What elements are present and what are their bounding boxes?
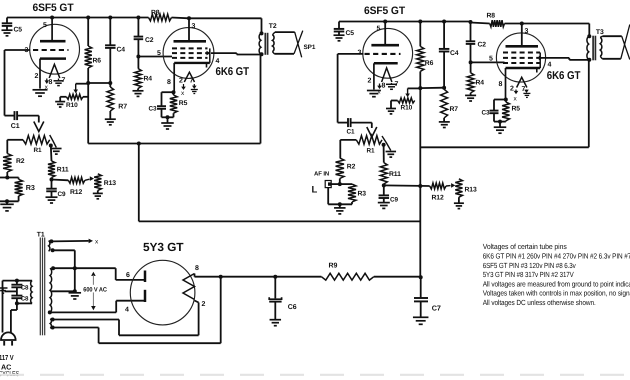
V4 heater	[517, 77, 527, 87]
svg-text:2: 2	[510, 86, 514, 93]
junction 6K6 plate	[187, 16, 191, 20]
capacitor C2 right	[466, 22, 487, 63]
V3 heater pin8 to x	[377, 84, 382, 96]
R1 wiper arm left	[34, 116, 44, 132]
svg-text:3: 3	[358, 50, 362, 57]
svg-text:3: 3	[525, 28, 529, 35]
wire jack sleeve left	[0, 199, 19, 203]
svg-text:All voltages are measured from: All voltages are measured from ground to…	[483, 279, 630, 288]
svg-text:T2: T2	[269, 23, 277, 30]
V3 pin 3 label	[358, 50, 362, 57]
junction R5/C3 bottom	[162, 115, 174, 122]
capacitor C1 left	[11, 111, 39, 130]
transformer T1 label	[37, 231, 45, 238]
wire R1 to R2 right	[340, 140, 356, 158]
V2 cathode ground	[161, 123, 174, 129]
junction C4/R7	[108, 81, 112, 85]
T2 secondary winding	[272, 32, 275, 54]
V3 pin 5 label	[377, 26, 381, 33]
R1 ground arm right	[382, 136, 396, 157]
svg-text:Voltages taken with controls i: Voltages taken with controls in max posi…	[483, 289, 630, 298]
junction C2b bottom	[469, 60, 473, 64]
V3 cathode	[374, 63, 398, 89]
svg-text:R1: R1	[34, 147, 43, 154]
capacitor C5	[2, 18, 23, 36]
resistor R8	[149, 10, 172, 21]
V5 pin 8 label	[195, 265, 199, 272]
resistor R11 left	[48, 146, 69, 180]
junction T2 primary top	[260, 31, 264, 35]
svg-text:6: 6	[126, 272, 130, 279]
wire C8 link	[16, 281, 18, 296]
R13 wiper arrow right	[446, 183, 455, 188]
svg-text:Voltages of certain tube pins: Voltages of certain tube pins	[483, 242, 567, 251]
wire HV top to 5Y3 pin6	[53, 268, 144, 280]
V2 pin 7 label	[190, 78, 194, 85]
junction R1/R11 left	[49, 144, 53, 148]
svg-text:C6: C6	[288, 304, 297, 311]
svg-text:R7: R7	[118, 104, 127, 111]
triode V1 6SF5 GT envelope	[30, 24, 80, 74]
svg-text:117 V: 117 V	[0, 353, 14, 362]
junction V2 cathode	[172, 90, 176, 94]
svg-text:R9: R9	[329, 263, 338, 270]
svg-text:3: 3	[25, 47, 29, 54]
V1 pin 3 label	[25, 47, 29, 54]
svg-text:3: 3	[192, 23, 196, 30]
junction HV bottom	[48, 310, 52, 314]
speaker SP2	[621, 25, 630, 60]
wire B+ riser right	[419, 88, 421, 277]
svg-text:R5: R5	[512, 106, 521, 113]
potentiometer R1 left	[23, 136, 50, 155]
potentiometer R13 right	[454, 179, 477, 209]
T1 primary winding	[31, 281, 32, 304]
V4 pin4 arrow	[539, 56, 543, 61]
resistor R3 right	[340, 184, 367, 204]
V1 pin 5 label	[43, 22, 47, 29]
junction R11/C9 right	[382, 183, 386, 187]
T1 rectifier filament winding	[50, 319, 51, 329]
svg-text:4: 4	[125, 307, 129, 314]
resistor R2 right	[336, 158, 356, 184]
svg-text:5: 5	[489, 56, 493, 63]
potentiometer R1 right	[356, 136, 382, 155]
resistor R5 right	[502, 100, 520, 122]
plug 117V	[1, 332, 16, 345]
junction C2 bottom	[136, 55, 140, 59]
junction T1 x-winding top	[49, 239, 53, 243]
V4 pin 8 label	[499, 81, 503, 88]
V2 plate	[174, 18, 207, 41]
svg-text:6SF5 GT: 6SF5 GT	[364, 5, 405, 17]
V5 pin 4 label	[125, 307, 129, 314]
junction R1/R11 right	[382, 143, 386, 147]
wire 5V to 5Y3 pin8	[53, 277, 221, 344]
capacitor C8 upper	[11, 285, 29, 292]
junction 5V bottom	[51, 326, 55, 330]
svg-text:6SF5 GT: 6SF5 GT	[33, 2, 74, 14]
V1 heater pin7 ground	[54, 79, 64, 86]
V2 grids (dashed)	[172, 48, 208, 58]
wire V4 screen to T3	[541, 58, 589, 60]
svg-text:C7: C7	[432, 303, 441, 312]
svg-text:8: 8	[49, 79, 53, 86]
svg-text:R11: R11	[57, 167, 69, 174]
resistor R9	[321, 263, 373, 281]
svg-text:R10: R10	[66, 102, 78, 109]
V2 pin 3 label	[192, 23, 196, 30]
T3 primary winding	[587, 36, 589, 59]
V2 pin7 ground	[191, 84, 198, 94]
junction C8 bottom	[15, 301, 19, 305]
label AC	[1, 362, 11, 371]
V2 pin4 arrow	[207, 51, 211, 56]
V5 pin 6 label	[126, 272, 130, 279]
potentiometer R10 right	[386, 88, 420, 114]
svg-text:CYCLES: CYCLES	[0, 369, 19, 378]
capacitor C9 left	[46, 180, 67, 204]
svg-text:R13: R13	[104, 180, 116, 187]
wire primary bottom	[11, 298, 32, 332]
svg-text:C4: C4	[450, 50, 459, 57]
V2 heater	[184, 72, 194, 82]
label 6SF5 GT right	[364, 5, 405, 17]
junction T2 primary bottom	[260, 52, 264, 56]
node B+ rail right	[339, 22, 589, 37]
R1 ground arm left	[50, 135, 62, 154]
ground input right	[334, 204, 346, 214]
wire cathode to C3 right	[494, 100, 506, 111]
V1 pin 2 label	[35, 73, 39, 80]
junction R6 bottom	[86, 81, 90, 85]
svg-text:R2: R2	[16, 158, 25, 165]
junction T1 x-winding bottom	[51, 248, 55, 252]
V3 plate	[371, 22, 399, 46]
wire C2b to V4 grid	[471, 61, 505, 63]
ground input left	[0, 201, 14, 211]
jack AF IN	[312, 171, 340, 196]
wire 5V to 5Y3 pin2	[53, 301, 199, 336]
wire V3 grid down	[338, 54, 348, 123]
svg-text:R1: R1	[367, 148, 376, 155]
V4 screen tie	[539, 53, 541, 69]
svg-text:R3: R3	[358, 191, 367, 198]
wire T2 secondary bottom	[274, 53, 294, 55]
svg-text:C4: C4	[117, 47, 126, 54]
V2 pin2 to x	[181, 84, 186, 97]
svg-text:C2: C2	[478, 42, 487, 49]
svg-text:C5: C5	[14, 27, 23, 34]
T2 core	[265, 33, 267, 55]
svg-text:6SF5 GT PIN #3 120v PIN #8 6.3: 6SF5 GT PIN #3 120v PIN #8 6.3v	[483, 261, 576, 270]
V1 pin 7 label	[62, 77, 66, 84]
V3 grid (dashed)	[365, 53, 401, 55]
svg-text:4: 4	[216, 58, 220, 65]
svg-text:5Y3 GT PIN #8 317v PIN #2 317V: 5Y3 GT PIN #8 317v PIN #2 317V	[483, 270, 574, 279]
svg-text:R8: R8	[151, 10, 160, 17]
V5 filament	[183, 274, 195, 300]
wire R11 to R12 left	[52, 179, 69, 182]
svg-text:T3: T3	[596, 29, 604, 36]
svg-text:T1: T1	[37, 231, 45, 238]
resistor R7	[105, 83, 127, 125]
capacitor C5 right	[334, 22, 355, 41]
junction R2 bottom left	[0, 176, 9, 180]
label 117 V	[0, 353, 14, 362]
V3 heater	[382, 68, 392, 82]
capacitor C9 right	[378, 185, 399, 208]
resistor R6	[85, 18, 102, 84]
T1 filament winding x	[49, 241, 50, 252]
junction B+ tap left	[137, 142, 141, 146]
label 6SF5 GT	[33, 2, 74, 14]
junction R6 top	[86, 16, 90, 20]
junction V4 cathode	[504, 98, 508, 102]
wire T3 secondary bottom	[602, 58, 621, 60]
capacitor C6	[269, 277, 297, 326]
T1 core	[40, 238, 44, 336]
svg-text:5Y3 GT: 5Y3 GT	[143, 240, 184, 254]
junction V3 plate	[383, 20, 387, 24]
text voltages notes	[483, 242, 630, 307]
pentode V2 6K6 GT envelope	[163, 28, 214, 79]
svg-text:8: 8	[167, 79, 171, 86]
label 6K6 GT	[216, 66, 250, 78]
V4 pin7 ground	[523, 90, 530, 98]
node B+ rail left (plate supply wire)	[7, 18, 262, 34]
capacitor C3	[149, 106, 167, 118]
svg-text:C8: C8	[21, 296, 29, 303]
junction C2b/R8b	[469, 20, 473, 24]
wire R11 to R12 right	[384, 184, 430, 187]
svg-text:R6: R6	[425, 60, 434, 67]
wire V1 grid down	[5, 50, 15, 116]
resistor R2 left	[3, 154, 25, 178]
V2 pin 8 label	[167, 79, 171, 86]
capacitor C3 right	[482, 110, 499, 122]
resistor R12 right	[430, 183, 446, 202]
wire V5 output	[195, 274, 421, 277]
junction R11/C9 left	[50, 178, 54, 182]
wire HV center tap	[51, 289, 77, 293]
V1 cathode ground	[33, 90, 48, 96]
junction R2 bottom right	[338, 182, 342, 186]
svg-text:8: 8	[382, 83, 386, 90]
V5 plate bottom	[144, 290, 147, 302]
svg-text:All voltages DC unless otherwi: All voltages DC unless otherwise shown.	[483, 298, 596, 307]
svg-text:2: 2	[179, 78, 183, 85]
resistor R11 right	[380, 145, 401, 186]
label 600 V AC arrow	[83, 272, 108, 311]
capacitor C8 lower	[11, 296, 29, 303]
transformer T3 label	[596, 29, 604, 36]
resistor R4	[133, 57, 153, 97]
junction R6b top	[418, 20, 422, 24]
svg-text:600 V AC: 600 V AC	[83, 287, 107, 294]
junction R5/C3 bottom right	[494, 120, 506, 127]
R13 wiper arrow left	[85, 176, 94, 181]
svg-text:R7: R7	[450, 106, 459, 113]
wire cathode to C3	[162, 92, 174, 106]
wire R6-R7 junction	[88, 82, 110, 84]
svg-text:6K6 GT: 6K6 GT	[547, 70, 581, 82]
resistor R3 left	[7, 178, 35, 202]
svg-text:C1: C1	[11, 123, 20, 130]
svg-text:C8: C8	[21, 285, 29, 292]
resistor R4 right	[465, 62, 484, 101]
wire jack sleeve right	[328, 188, 352, 207]
junction T3 primary bottom	[587, 58, 591, 62]
V3 pin 7 label	[395, 81, 399, 88]
svg-text:C9: C9	[58, 191, 67, 198]
V1 pin 3 wire	[5, 49, 31, 51]
junction V5 pin8	[219, 275, 223, 279]
V3 pin 3 wire	[338, 53, 364, 55]
svg-text:8: 8	[195, 265, 199, 272]
svg-text:R12: R12	[432, 195, 444, 202]
T3 secondary winding	[600, 36, 602, 59]
junction 5V top	[51, 318, 55, 322]
junction C8 top	[15, 279, 19, 283]
potentiometer R10	[55, 84, 88, 109]
svg-text:C2: C2	[145, 37, 154, 44]
V2 cathode	[174, 63, 210, 92]
svg-text:C3: C3	[149, 106, 158, 113]
svg-text:AF IN: AF IN	[314, 171, 329, 178]
V4 pin 5 label	[489, 56, 493, 63]
V2 pin 5 label	[157, 50, 161, 57]
wire R1 to R2 left	[7, 140, 23, 154]
capacitor C7	[413, 277, 441, 324]
V1 plate	[40, 18, 66, 42]
wire R6-node down left	[87, 83, 89, 144]
junction C4b top	[442, 20, 446, 24]
capacitor C2	[134, 18, 154, 57]
junction T3 primary top	[587, 34, 591, 38]
resistor R12 left	[68, 177, 85, 196]
svg-text:R11: R11	[389, 171, 401, 178]
wire V2 screen to T2	[211, 53, 262, 54]
svg-text:C1: C1	[347, 128, 356, 135]
svg-text:R5: R5	[179, 100, 188, 107]
V4 grids (dashed)	[503, 53, 540, 64]
svg-text:4: 4	[548, 62, 552, 69]
T3 core	[593, 36, 595, 61]
junction C6 top	[273, 275, 277, 279]
wire HV bottom to 5Y3 pin4	[50, 301, 144, 313]
ground center tap	[69, 293, 82, 299]
junction 6SF5 plate	[50, 16, 54, 20]
rectifier V5 5Y3 GT envelope	[130, 260, 195, 325]
wire x-arrow	[51, 239, 99, 246]
junction C4 top	[108, 16, 112, 20]
svg-text:C5: C5	[346, 30, 355, 37]
wire C8 mid ground	[0, 288, 17, 293]
V4 pin 4 label	[548, 62, 552, 69]
wire T3 secondary top	[602, 35, 621, 37]
resistor R6 right	[417, 22, 434, 89]
junction C2/R8	[136, 16, 140, 20]
transformer T2 label	[269, 23, 277, 30]
R1 wiper arm right	[367, 123, 377, 137]
junction R12 wire crossing	[418, 184, 422, 188]
V5 plate top	[144, 271, 147, 283]
svg-text:R8: R8	[487, 13, 496, 20]
V3 pin 8 label	[382, 83, 386, 90]
svg-text:SP1: SP1	[304, 44, 316, 51]
V4 pin2 to x	[514, 90, 519, 103]
wire B+ feed left channel	[88, 54, 260, 143]
wire C2 to 6K6 grid	[138, 56, 172, 58]
svg-text:R3: R3	[26, 183, 35, 192]
scan artifact line	[0, 374, 630, 376]
pentode V4 6K6 GT envelope	[496, 33, 545, 82]
wire B+ feed right channel	[420, 60, 589, 147]
V5 pin 2 label	[202, 301, 206, 308]
V2 pin 4 label	[216, 58, 220, 65]
V4 pin 3 label	[525, 28, 529, 35]
V1 pin 8 label	[49, 79, 53, 86]
svg-text:6K6 GT PIN #1 260v PIN #4 270v: 6K6 GT PIN #1 260v PIN #4 270v PIN #2 6.…	[483, 252, 630, 261]
capacitor C1 right	[347, 118, 372, 135]
T2 primary winding	[259, 33, 261, 54]
V2 pin 2 label	[179, 78, 183, 85]
V3 cathode ground	[367, 91, 381, 97]
junction R6b bottom	[418, 86, 422, 90]
junction V4 plate	[520, 22, 524, 26]
V1 grid (dashed)	[33, 49, 69, 51]
V1 heater	[49, 64, 60, 78]
svg-text:6K6 GT: 6K6 GT	[216, 66, 250, 78]
V1 cathode	[40, 59, 66, 89]
svg-text:5: 5	[43, 22, 47, 29]
junction B+ corner	[419, 275, 423, 279]
svg-text:C9: C9	[390, 197, 399, 204]
wire T2 secondary top	[275, 31, 295, 33]
label 6K6 GT right	[547, 70, 581, 82]
wire B+ drop left	[139, 144, 421, 222]
V4 pin 2 label	[510, 86, 514, 93]
svg-text:R10: R10	[401, 105, 413, 112]
V3 heater pin7 ground	[386, 83, 397, 89]
capacitor C4 right	[439, 22, 459, 88]
potentiometer R13 left	[93, 174, 116, 199]
svg-text:2: 2	[368, 77, 372, 84]
junction HV top	[51, 266, 55, 270]
V4 plate	[506, 24, 539, 47]
label 5Y3 GT	[143, 240, 184, 254]
T1 HV winding	[50, 268, 52, 312]
svg-text:R4: R4	[144, 76, 153, 83]
V1 heater pin8 to x	[45, 79, 50, 91]
V3 pin 2 label	[368, 77, 372, 84]
junction filament/HV cross	[73, 266, 77, 270]
svg-text:2: 2	[202, 301, 206, 308]
svg-text:2: 2	[35, 73, 39, 80]
speaker SP1	[294, 31, 316, 58]
svg-text:7: 7	[190, 78, 194, 85]
svg-text:R13: R13	[465, 187, 477, 194]
svg-text:5: 5	[377, 26, 381, 33]
resistor R5	[170, 92, 188, 117]
resistor R8 right	[487, 13, 505, 27]
V4 cathode	[506, 68, 541, 100]
svg-text:R6: R6	[93, 58, 102, 65]
svg-text:5: 5	[157, 50, 161, 57]
svg-text:7: 7	[522, 86, 526, 93]
V4 pin 7 label	[522, 86, 526, 93]
